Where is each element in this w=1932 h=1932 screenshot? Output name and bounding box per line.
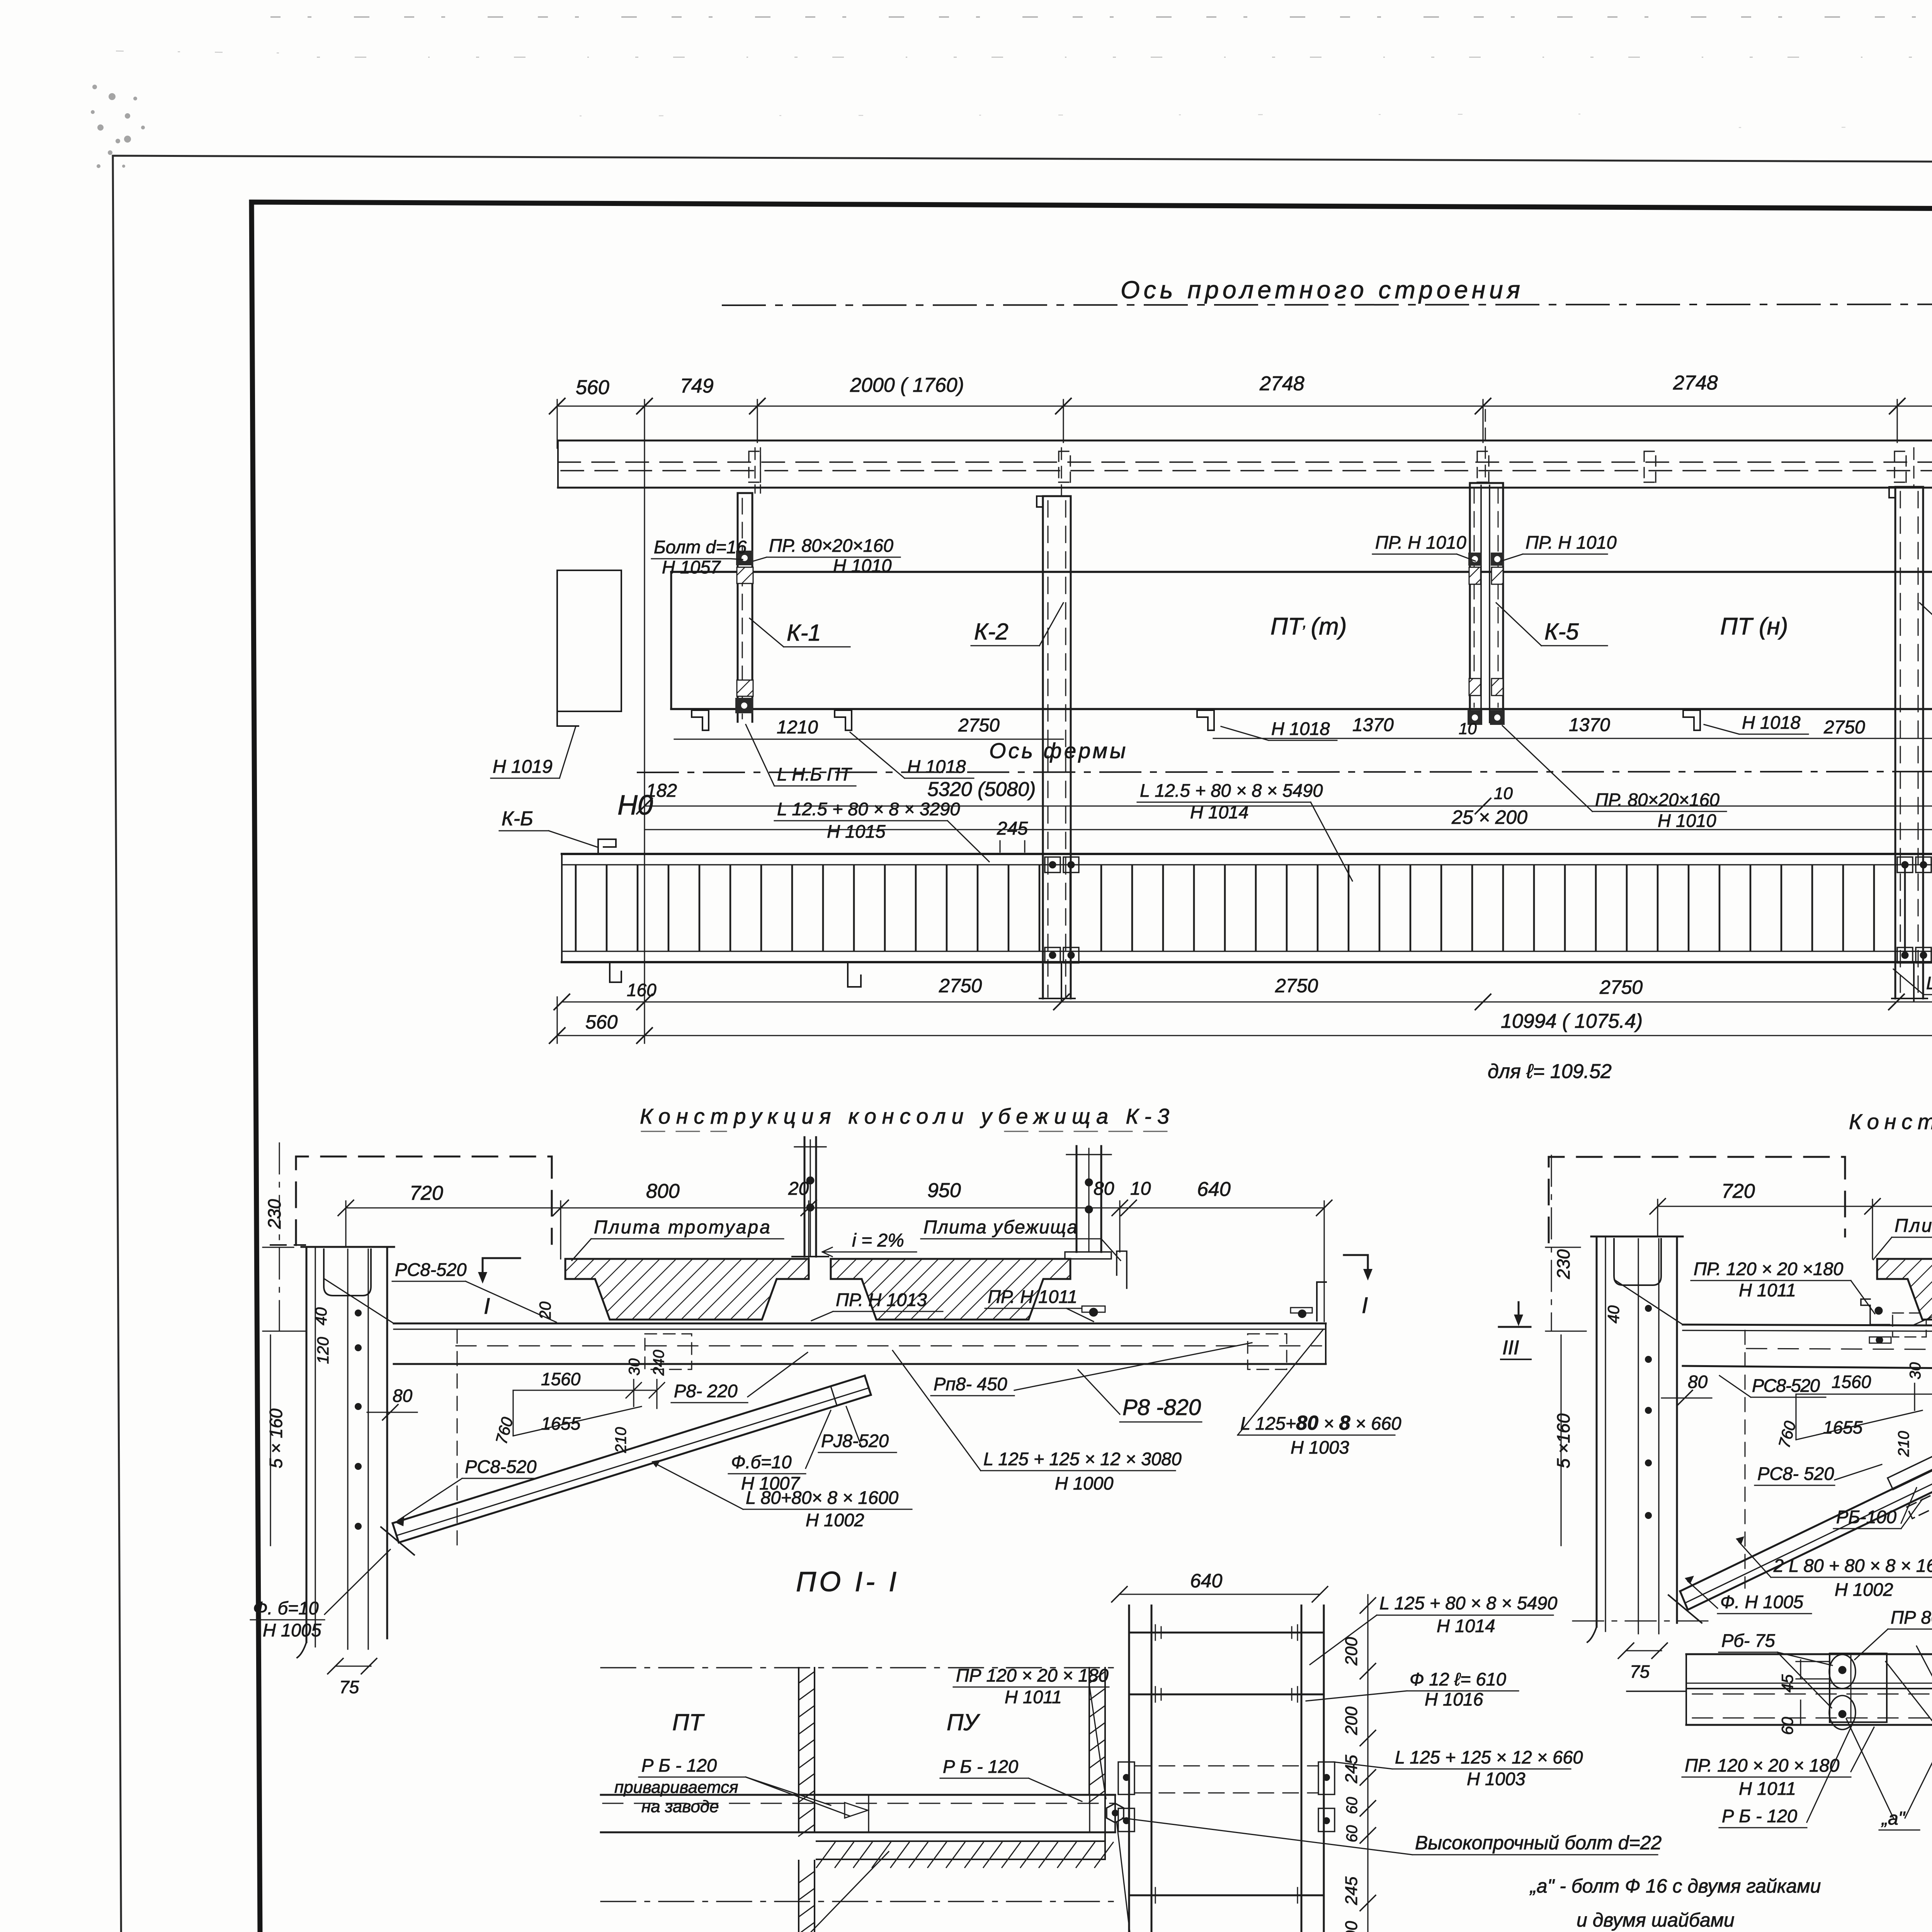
svg-text:К-2: К-2 — [974, 619, 1009, 645]
section mark I right — [1344, 1255, 1368, 1277]
K-4 console detail — [1499, 1109, 1932, 1682]
svg-text:60: 60 — [1344, 1825, 1361, 1843]
svg-text:III: III — [1502, 1337, 1519, 1359]
plan view — [491, 276, 1932, 1083]
svg-text:Ось пролетного строения: Ось пролетного строения — [1121, 276, 1524, 304]
svg-text:5320 (5080): 5320 (5080) — [927, 778, 1036, 801]
svg-text:25 × 200: 25 × 200 — [1451, 806, 1527, 828]
svg-text:2750: 2750 — [1275, 975, 1318, 997]
right end angle of beam — [1317, 1282, 1326, 1321]
svg-text:ПР 80 × 20 × 160: ПР 80 × 20 × 160 — [1891, 1607, 1932, 1628]
svg-text:К-5: К-5 — [1544, 619, 1579, 645]
N1018 clips under deck — [692, 710, 1932, 730]
svg-text:5 ×160: 5 ×160 — [1553, 1413, 1573, 1468]
top dimension row K-3 — [346, 1207, 1324, 1208]
svg-text:Н 1010: Н 1010 — [1658, 810, 1716, 831]
svg-text:720: 720 — [1721, 1180, 1755, 1202]
svg-text:45: 45 — [1778, 1674, 1796, 1692]
svg-text:75: 75 — [1630, 1662, 1650, 1682]
svg-text:ПО I- I: ПО I- I — [796, 1566, 900, 1597]
svg-text:Рб- 75: Рб- 75 — [1721, 1630, 1776, 1651]
K-6 clip — [598, 839, 616, 853]
svg-text:210: 210 — [1895, 1431, 1912, 1457]
svg-text:Конструкция консоли убежищ: Конструкция консоли убежища К-4 — [1849, 1109, 1932, 1134]
svg-text:Н 1010: Н 1010 — [833, 555, 892, 576]
svg-text:60: 60 — [1344, 1797, 1361, 1815]
svg-text:2000 ( 1760): 2000 ( 1760) — [850, 374, 964, 396]
left hatched wall strip — [799, 1668, 815, 1932]
dash-dot column axis — [1551, 1155, 1552, 1331]
svg-text:Ось фермы: Ось фермы — [989, 738, 1128, 763]
section III-III — [1627, 1544, 1932, 1830]
svg-text:2750: 2750 — [958, 715, 1000, 736]
svg-text:L Н.Б ПТ: L Н.Б ПТ — [777, 764, 852, 784]
deck band PT — [671, 572, 1932, 709]
svg-text:L 125 + 125 × 12 × 3080: L 125 + 125 × 12 × 3080 — [983, 1449, 1182, 1469]
svg-text:ПР 120 × 20 × 180: ПР 120 × 20 × 180 — [956, 1665, 1109, 1685]
dash-dot boundaries — [601, 1667, 1119, 1668]
svg-text:245: 245 — [997, 818, 1028, 839]
svg-text:245: 245 — [1342, 1755, 1361, 1784]
handrail post 2 — [1065, 1146, 1127, 1316]
svg-text:Р Б - 120: Р Б - 120 — [641, 1755, 717, 1776]
svg-text:ПР. 80×20×160: ПР. 80×20×160 — [1595, 789, 1719, 810]
svg-text:L 125 + 80 × 8 × 5490: L 125 + 80 × 8 × 5490 — [1379, 1593, 1557, 1613]
svg-text:и двумя шайбами: и двумя шайбами — [1577, 1909, 1735, 1931]
top beam (plan) — [558, 440, 1932, 488]
svg-text:„а" - болт Ф 16 с двумя гай: „а" - болт Ф 16 с двумя гайками — [1529, 1875, 1821, 1897]
svg-text:Ф.б=10: Ф.б=10 — [731, 1452, 792, 1472]
small box N1019 left — [557, 570, 621, 726]
column (vertical member) — [297, 1247, 394, 1658]
svg-text:200: 200 — [1342, 1706, 1361, 1735]
cantilever beam — [325, 1279, 1326, 1364]
bearing details on beam K-4 — [1861, 1289, 1932, 1347]
ladder — [1129, 1605, 1324, 1932]
svg-text:640: 640 — [1197, 1178, 1231, 1201]
dashed splice boxes in beam — [645, 1334, 692, 1369]
svg-text:30: 30 — [1907, 1362, 1924, 1380]
top dimension line — [557, 406, 1932, 407]
svg-text:1655: 1655 — [1823, 1417, 1863, 1437]
svg-text:210: 210 — [612, 1427, 629, 1453]
right hatched wall strip — [1089, 1668, 1105, 1795]
dash-dot column axis — [279, 1143, 280, 1331]
svg-text:10994 ( 1075.4): 10994 ( 1075.4) — [1501, 1010, 1643, 1032]
svg-text:РС8-520: РС8-520 — [1752, 1375, 1820, 1396]
svg-text:Ф. Н 1005: Ф. Н 1005 — [1720, 1592, 1804, 1612]
svg-text:1370: 1370 — [1352, 715, 1394, 735]
svg-text:2750: 2750 — [1823, 717, 1865, 738]
svg-text:40: 40 — [312, 1307, 330, 1325]
svg-text:РЈ8-520: РЈ8-520 — [821, 1430, 889, 1451]
svg-text:Р8- 220: Р8- 220 — [674, 1381, 738, 1401]
svg-text:800: 800 — [646, 1180, 680, 1202]
svg-text:Плита тротуара: Плита тротуара — [594, 1217, 772, 1238]
svg-text:200: 200 — [1342, 1637, 1361, 1666]
svg-text:Ф. б=10: Ф. б=10 — [253, 1598, 319, 1618]
svg-text:I: I — [484, 1294, 490, 1319]
svg-text:ПР. 120 × 20 × 180: ПР. 120 × 20 × 180 — [1685, 1755, 1839, 1776]
svg-text:1370: 1370 — [1569, 715, 1610, 735]
svg-text:L 12.5 + 80 × 8 × 3290: L 12.5 + 80 × 8 × 3290 — [777, 799, 960, 819]
clip 1 with bent plate Rb-75 — [1829, 1653, 1887, 1730]
svg-text:160: 160 — [627, 980, 656, 1000]
svg-text:Н 1015: Н 1015 — [827, 821, 886, 842]
hatched slab band (horizontal) — [816, 1795, 1105, 1859]
svg-text:200: 200 — [1342, 1921, 1361, 1932]
svg-text:Н 1018: Н 1018 — [1742, 712, 1801, 733]
dimension extension verticals — [557, 400, 1932, 1043]
svg-text:К-Б: К-Б — [502, 808, 533, 830]
svg-text:Р8 -820: Р8 -820 — [1122, 1395, 1201, 1420]
svg-text:5 × 160: 5 × 160 — [266, 1408, 286, 1468]
svg-text:10: 10 — [1494, 784, 1513, 803]
svg-text:245: 245 — [1342, 1876, 1361, 1905]
small dim figure 1560/1655 — [513, 1379, 665, 1436]
svg-text:2750: 2750 — [939, 975, 982, 997]
svg-text:560: 560 — [576, 376, 609, 399]
svg-text:Н 1011: Н 1011 — [1739, 1778, 1796, 1799]
svg-text:Плита тротуара: Плита тротуара — [1895, 1216, 1932, 1236]
rungs — [576, 866, 1932, 951]
svg-text:1560: 1560 — [541, 1369, 581, 1389]
dashed counterweight outline — [296, 1156, 552, 1245]
svg-text:Н 1016: Н 1016 — [1425, 1689, 1483, 1709]
svg-text:720: 720 — [410, 1182, 443, 1204]
svg-text:РС8-520: РС8-520 — [395, 1259, 467, 1280]
svg-text:230: 230 — [1553, 1249, 1573, 1279]
svg-text:L 125+80 × 8 × 660: L 125+80 × 8 × 660 — [1240, 1412, 1401, 1434]
horizontal rail bar — [601, 1795, 1115, 1832]
svg-text:приваривается: приваривается — [614, 1778, 738, 1797]
svg-text:560: 560 — [585, 1011, 618, 1033]
top dimension row K-4 — [1658, 1206, 1932, 1207]
svg-text:Н 1018: Н 1018 — [907, 756, 966, 777]
5320 dim row — [645, 805, 1932, 806]
beam splice stubs — [749, 451, 1932, 482]
K-2 right member — [1889, 448, 1931, 998]
K-3 console detail — [250, 1104, 1401, 1697]
45/60 dims left of clip1 — [1800, 1660, 1801, 1679]
svg-text:РБ-100: РБ-100 — [1836, 1507, 1896, 1527]
svg-text:Болт d=16: Болт d=16 — [654, 537, 747, 557]
svg-text:Н 1003: Н 1003 — [1291, 1437, 1349, 1458]
svg-text:Высокопрочный болт d=22: Высокопрочный болт d=22 — [1415, 1832, 1662, 1854]
hex bolt — [1107, 1803, 1124, 1823]
svg-text:Н 1000: Н 1000 — [1055, 1473, 1114, 1493]
svg-text:ПТ: ПТ — [672, 1709, 705, 1735]
section I-I — [599, 1566, 1821, 1932]
svg-text:L 80 + 80 × 8 × 120: L 80 + 80 × 8 × 120 — [969, 1930, 1127, 1932]
svg-text:Н 1002: Н 1002 — [806, 1510, 864, 1530]
svg-text:75: 75 — [339, 1677, 359, 1697]
75 dim at column bottom — [335, 1665, 371, 1667]
svg-text:ПУ: ПУ — [947, 1709, 980, 1735]
svg-text:80: 80 — [1094, 1179, 1114, 1199]
section mark III left — [1499, 1302, 1531, 1327]
dashed rung zone — [1134, 1765, 1318, 1767]
clips below walkway — [610, 963, 1932, 1002]
svg-text:Р Б - 120: Р Б - 120 — [1722, 1806, 1797, 1826]
cantilever beam K-4 — [1614, 1280, 1932, 1374]
svg-text:К-1: К-1 — [787, 620, 821, 646]
svg-text:Ф 12 ℓ= 610: Ф 12 ℓ= 610 — [1410, 1669, 1506, 1689]
dashed column-face line — [457, 1329, 458, 1548]
column bolts — [355, 1310, 362, 1530]
svg-text:Н 1005: Н 1005 — [263, 1620, 321, 1640]
svg-text:Н 1011: Н 1011 — [1005, 1687, 1062, 1707]
svg-text:640: 640 — [1190, 1570, 1223, 1592]
svg-text:40: 40 — [1604, 1305, 1622, 1323]
svg-text:Конструкция консоли убежищ: Конструкция консоли убежища К-3 — [640, 1104, 1171, 1128]
sidewalk slab K-4 — [1877, 1259, 1932, 1320]
svg-text:Н 1002: Н 1002 — [1835, 1579, 1893, 1600]
svg-text:Н0: Н0 — [617, 790, 653, 821]
shelter slab 1 (hatched) — [831, 1259, 1070, 1320]
svg-text:ПР. 120 × 20 ×180: ПР. 120 × 20 ×180 — [1694, 1259, 1843, 1279]
svg-text:2748: 2748 — [1259, 372, 1304, 395]
svg-text:L 125 + 125 × 12 × 660: L 125 + 125 × 12 × 660 — [1395, 1747, 1583, 1767]
svg-text:Рп8- 450: Рп8- 450 — [934, 1374, 1007, 1394]
svg-text:Н 1057: Н 1057 — [662, 557, 721, 577]
svg-text:10: 10 — [1459, 719, 1477, 738]
svg-text:80: 80 — [393, 1386, 413, 1406]
svg-text:20: 20 — [788, 1179, 809, 1199]
svg-text:РС8-520: РС8-520 — [465, 1456, 537, 1477]
ladder mid clips — [1118, 1762, 1335, 1832]
svg-text:2748: 2748 — [1673, 372, 1718, 394]
K-2 left member — [1037, 448, 1079, 998]
svg-text:i = 2%: i = 2% — [852, 1230, 904, 1251]
svg-text:для ℓ= 109.52: для ℓ= 109.52 — [1488, 1060, 1612, 1083]
svg-text:ПР. 80×20×160: ПР. 80×20×160 — [769, 535, 893, 556]
svg-text:ПР. Н 1011: ПР. Н 1011 — [988, 1286, 1077, 1307]
svg-text:30: 30 — [626, 1359, 643, 1376]
svg-text:2 L 80 + 80 × 8 × 1600: 2 L 80 + 80 × 8 × 1600 — [1773, 1555, 1932, 1576]
svg-text:Н 1003: Н 1003 — [1467, 1769, 1526, 1789]
bar (rail in section) — [1627, 1654, 1932, 1725]
svg-text:ПР. Н 1013: ПР. Н 1013 — [836, 1289, 927, 1310]
svg-text:L 80+80×8× 670; Н1017.: L 80+80×8× 670; Н1017. — [1926, 973, 1932, 993]
svg-text:Р Б - 120: Р Б - 120 — [943, 1756, 1018, 1777]
svg-text:Н 1014: Н 1014 — [1190, 802, 1249, 822]
svg-text:749: 749 — [680, 375, 714, 397]
svg-text:ПТ (н): ПТ (н) — [1720, 613, 1788, 640]
svg-text:Н 1019: Н 1019 — [493, 757, 553, 777]
svg-text:L 12.5 + 80 × 8 × 5490: L 12.5 + 80 × 8 × 5490 — [1140, 780, 1323, 801]
svg-text:10: 10 — [1130, 1179, 1151, 1199]
svg-text:240: 240 — [650, 1350, 667, 1376]
svg-text:20: 20 — [536, 1301, 554, 1320]
svg-text:120: 120 — [314, 1337, 332, 1364]
section mark I left — [483, 1258, 520, 1280]
handrail post 1 — [792, 1137, 828, 1257]
strut (diagonal) — [381, 1376, 871, 1555]
svg-text:ПР. Н 1010: ПР. Н 1010 — [1375, 532, 1466, 553]
inner thick frame — [252, 202, 1932, 1932]
svg-text:1655: 1655 — [541, 1413, 581, 1434]
svg-text:60: 60 — [1778, 1717, 1796, 1735]
svg-text:I: I — [1362, 1293, 1368, 1318]
svg-text:230: 230 — [264, 1199, 284, 1229]
svg-text:80: 80 — [1688, 1372, 1708, 1392]
small dim figure K-4 — [1796, 1383, 1932, 1440]
sidewalk slab (hatched) — [565, 1259, 809, 1320]
svg-text:Н 1011: Н 1011 — [1739, 1280, 1796, 1300]
svg-text:на заводе: на заводе — [641, 1797, 719, 1816]
walkway (stringer with rungs) — [562, 854, 1932, 962]
svg-text:РС8- 520: РС8- 520 — [1757, 1463, 1834, 1484]
axis of span (dash-dot) — [723, 304, 1932, 305]
svg-text:ПР. Н 1010: ПР. Н 1010 — [1526, 532, 1617, 553]
svg-text:1210: 1210 — [777, 717, 818, 738]
dashed counterweight outline — [1549, 1157, 1845, 1242]
dim texts under deck — [674, 738, 1063, 740]
bottom dim rows — [562, 1001, 1932, 1002]
svg-text:Н 1018: Н 1018 — [1271, 718, 1330, 739]
K-5 center member — [1468, 410, 1505, 725]
svg-text:950: 950 — [927, 1179, 961, 1202]
svg-text:L 80+80× 8 × 1600: L 80+80× 8 × 1600 — [746, 1487, 898, 1508]
K-1 left member — [735, 448, 760, 722]
leaders crossing from labels (long thin) — [1917, 1646, 1932, 1723]
strut K-4 — [1668, 1372, 1932, 1623]
ladder top dim 640 — [1119, 1594, 1320, 1595]
vertical dim column — [1367, 1595, 1368, 1932]
svg-text:2750: 2750 — [1599, 976, 1643, 998]
svg-text:1560: 1560 — [1832, 1372, 1871, 1392]
svg-text:Плита убежища: Плита убежища — [923, 1217, 1078, 1238]
svg-text:Н 1014: Н 1014 — [1437, 1616, 1495, 1636]
column — [1587, 1236, 1683, 1642]
